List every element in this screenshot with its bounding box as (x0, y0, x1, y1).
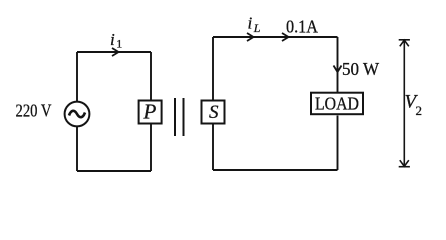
wire secondary loop (213, 37, 338, 170)
transformer core (175, 98, 184, 136)
svg-text:50 W: 50 W (342, 59, 379, 79)
ac source 220 V (65, 102, 90, 127)
svg-text:i: i (110, 30, 115, 49)
label iL (248, 14, 261, 36)
current arrow 0.1A (282, 33, 289, 41)
svg-text:0.1A: 0.1A (286, 17, 318, 37)
svg-text:1: 1 (116, 37, 122, 51)
load (311, 93, 363, 115)
current arrow iL (247, 33, 254, 41)
secondary winding S (202, 101, 225, 124)
primary winding P (139, 100, 162, 124)
svg-text:2: 2 (416, 103, 423, 118)
svg-text:P: P (143, 100, 157, 124)
svg-text:L: L (253, 21, 261, 35)
svg-text:LOAD: LOAD (315, 94, 359, 114)
label V2 (405, 92, 423, 119)
svg-text:220 V: 220 V (16, 101, 52, 121)
wire primary loop (77, 52, 151, 171)
svg-text:i: i (248, 14, 253, 33)
voltage dimension V2 (399, 40, 410, 167)
svg-text:S: S (209, 102, 219, 123)
label i1 (110, 30, 122, 51)
power arrow 50 W (334, 66, 342, 73)
current arrow i1 (112, 48, 119, 56)
